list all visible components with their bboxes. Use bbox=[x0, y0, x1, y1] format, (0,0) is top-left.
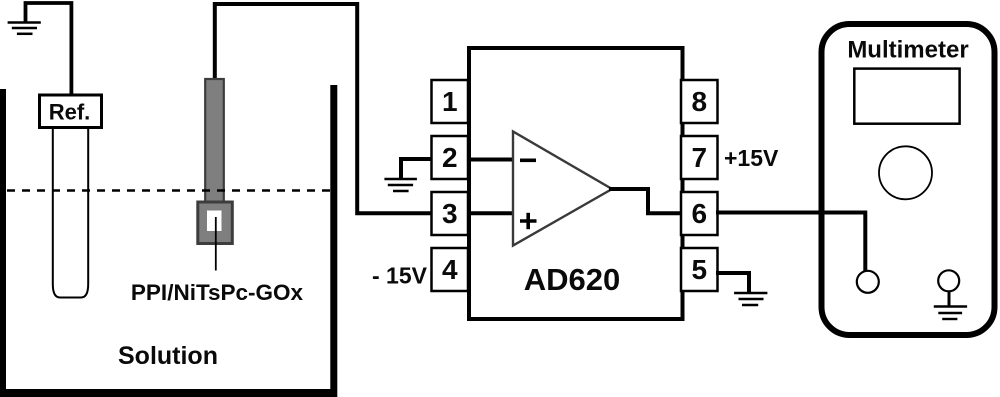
svg-text:Ref.: Ref. bbox=[49, 100, 91, 125]
svg-text:Multimeter: Multimeter bbox=[847, 37, 968, 64]
svg-text:6: 6 bbox=[692, 198, 708, 229]
svg-text:2: 2 bbox=[442, 142, 458, 173]
svg-text:AD620: AD620 bbox=[524, 262, 621, 297]
svg-text:- 15V: - 15V bbox=[372, 263, 428, 289]
svg-text:+15V: +15V bbox=[724, 145, 779, 171]
svg-text:Solution: Solution bbox=[118, 342, 218, 370]
svg-text:4: 4 bbox=[442, 254, 458, 285]
svg-text:PPI/NiTsPc-GOx: PPI/NiTsPc-GOx bbox=[131, 280, 304, 305]
svg-text:1: 1 bbox=[442, 86, 458, 117]
svg-text:5: 5 bbox=[692, 254, 708, 285]
svg-text:8: 8 bbox=[692, 86, 708, 117]
svg-text:7: 7 bbox=[692, 142, 708, 173]
svg-text:3: 3 bbox=[442, 198, 458, 229]
